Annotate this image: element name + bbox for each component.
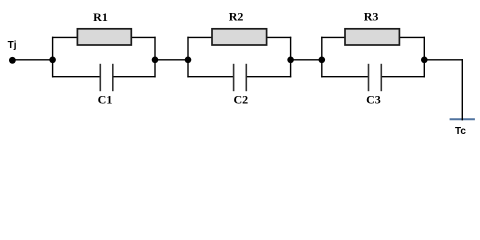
node D xyxy=(287,57,294,64)
wire node E to C3 xyxy=(321,76,368,78)
wire stage1 right vertical xyxy=(154,37,156,78)
svg-text:R1: R1 xyxy=(93,10,108,24)
resistor R3 xyxy=(345,29,399,45)
wire stage1 left vertical xyxy=(52,37,54,78)
svg-text:Tc: Tc xyxy=(455,126,466,137)
resistor R1 xyxy=(77,29,131,45)
wire node F to Tc corner xyxy=(424,59,463,61)
capacitor C3 xyxy=(369,64,382,91)
wire node E to R3 xyxy=(321,36,345,38)
node E xyxy=(319,57,326,64)
wire C1 to node B xyxy=(113,76,155,78)
resistor R2 xyxy=(212,29,267,45)
wire node A to C1 xyxy=(52,76,100,78)
wire C3 to node F xyxy=(382,76,425,78)
capacitor C2 xyxy=(234,64,247,91)
node B xyxy=(152,57,159,64)
node A xyxy=(49,57,56,64)
terminal Tc bar xyxy=(450,118,475,120)
wire node C to C2 xyxy=(187,76,233,78)
node C xyxy=(185,57,192,64)
wire node A to R1 xyxy=(52,36,77,38)
svg-text:C3: C3 xyxy=(366,92,381,106)
wire stage2 right vertical xyxy=(290,37,292,78)
wire node B to node C xyxy=(155,59,188,61)
terminal node Tj xyxy=(9,57,16,64)
wire R1 to node B xyxy=(132,36,156,38)
svg-text:C2: C2 xyxy=(233,92,248,106)
svg-text:C1: C1 xyxy=(98,93,113,107)
wire Tj to node A xyxy=(12,59,52,61)
wire Tc vertical drop xyxy=(461,59,463,120)
svg-text:R3: R3 xyxy=(364,10,379,24)
wire R3 to node F xyxy=(400,36,425,38)
wire node D to node E xyxy=(291,59,322,61)
wire node C to R2 xyxy=(187,36,211,38)
svg-text:Tj: Tj xyxy=(8,40,17,51)
node F xyxy=(421,57,428,64)
svg-text:R2: R2 xyxy=(229,10,244,24)
wire C2 to node D xyxy=(247,76,291,78)
wire R2 to node D xyxy=(267,36,291,38)
wire stage3 right vertical xyxy=(423,37,425,78)
wire stage2 left vertical xyxy=(187,37,189,78)
wire stage3 left vertical xyxy=(321,37,323,78)
capacitor C1 xyxy=(100,64,113,91)
